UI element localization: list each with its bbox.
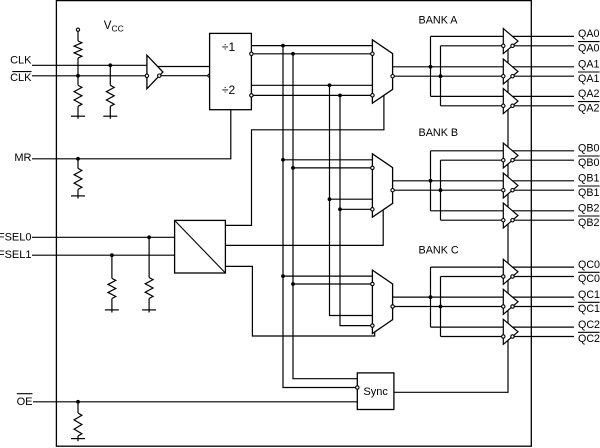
wire bank A bottom buffer true input bbox=[431, 95, 504, 97]
svg-text:CLK: CLK bbox=[10, 72, 32, 84]
op-amp U1 input clock buffer bbox=[147, 55, 163, 89]
wire bank B bottom buffer complement input bbox=[441, 219, 502, 221]
bubble buffer QB2 inverting input bbox=[502, 219, 505, 222]
wire bank B fanout true vertical bbox=[430, 151, 432, 211]
bubble sync inverting input bbox=[356, 386, 359, 389]
wire output QA1 complement bbox=[514, 75, 574, 77]
bubble buffer QA1 inverting input bbox=[502, 75, 505, 78]
junction mux B pair2 complement bbox=[338, 207, 342, 211]
wire mux C complement output bbox=[394, 306, 501, 308]
resistor pull-down FSEL1 bbox=[111, 255, 113, 278]
svg-text:QA2: QA2 bbox=[578, 103, 599, 115]
buffer QC1 bbox=[503, 289, 518, 314]
decoder diagonal bbox=[175, 220, 226, 273]
junction bank B fanout true bbox=[429, 179, 433, 183]
svg-text:BANK C: BANK C bbox=[419, 244, 459, 256]
sync block bbox=[357, 373, 394, 410]
junction mux B pair2 true bbox=[328, 197, 332, 201]
wire output QA2 true bbox=[513, 95, 575, 97]
bubble div1 inverted output bbox=[250, 52, 253, 55]
bubble buffer QB0 inverting input bbox=[502, 159, 505, 162]
wire FSEL0 input bbox=[32, 236, 175, 238]
wire clock buffer complement output bbox=[161, 75, 208, 77]
junction div1 true branch bbox=[281, 44, 285, 48]
resistor pull-down FSEL0 bbox=[148, 237, 150, 277]
svg-text:Sync: Sync bbox=[363, 386, 388, 398]
wire mux B input pair2 true bbox=[330, 198, 373, 200]
wire output QC0 true bbox=[513, 266, 575, 268]
svg-text:OE: OE bbox=[17, 396, 33, 408]
wire bank B fanout complement vertical bbox=[440, 160, 442, 220]
svg-text:QC2: QC2 bbox=[578, 319, 600, 331]
svg-text:QA1: QA1 bbox=[578, 73, 599, 85]
svg-text:CLK: CLK bbox=[10, 55, 32, 67]
chip boundary bbox=[56, 1, 531, 447]
ground FSEL1 resistor bbox=[105, 309, 119, 311]
wire output QB0 complement bbox=[514, 159, 574, 161]
bubble mux B pair1 inverting input bbox=[371, 166, 374, 169]
bubble mux A pair2 inverting input bbox=[371, 94, 374, 97]
wire CLKb input bbox=[32, 75, 145, 77]
wire div2 true bus vertical bbox=[330, 85, 373, 315]
wire output QA0 complement bbox=[514, 45, 574, 47]
mux bank B bbox=[372, 154, 392, 217]
wire select B route bbox=[225, 210, 383, 246]
junction bank A fanout true bbox=[429, 65, 433, 69]
ground FSEL0 resistor bbox=[142, 309, 156, 311]
wire mux C input pair1 complement bbox=[293, 283, 371, 285]
buffer QB0 bbox=[503, 143, 518, 168]
resistor pull-down OE bbox=[77, 402, 79, 413]
bubble divider inverting input bbox=[208, 74, 211, 77]
wire bank C fanout true vertical bbox=[430, 267, 432, 327]
bubble buffer QA2 inverting input bbox=[502, 104, 505, 107]
bubble mux A inverted output bbox=[391, 75, 394, 78]
wire output QC1 true bbox=[513, 296, 575, 298]
wire output QA1 true bbox=[513, 66, 575, 68]
svg-text:QB1: QB1 bbox=[578, 187, 599, 199]
svg-text:÷1: ÷1 bbox=[222, 40, 236, 54]
ground MR resistor bbox=[71, 195, 85, 197]
wire mux A complement output bbox=[394, 75, 501, 77]
bubble buffer QC2 inverting input bbox=[502, 335, 505, 338]
divider block bbox=[210, 33, 252, 109]
junction div2 true branch bbox=[328, 83, 332, 87]
wire OE input bbox=[33, 401, 357, 403]
wire output QB1 true bbox=[513, 180, 575, 182]
junction mux B pair1 complement bbox=[291, 166, 295, 170]
junction CLK pull-down bbox=[108, 63, 112, 67]
decoder FSEL block bbox=[175, 220, 226, 273]
bubble buffer QC0 inverting input bbox=[502, 275, 505, 278]
wire bank C top buffer true input bbox=[431, 266, 504, 268]
bubble buffer QA2 inverted output bbox=[511, 104, 514, 107]
bubble buffer QC0 inverted output bbox=[511, 275, 514, 278]
wire output QB0 true bbox=[513, 150, 575, 152]
wire output QC2 complement bbox=[514, 336, 574, 338]
svg-text:÷2: ÷2 bbox=[222, 83, 236, 97]
mux bank A bbox=[372, 40, 392, 103]
bubble buffer QB1 inverting input bbox=[502, 189, 505, 192]
wire bank B top buffer complement input bbox=[441, 159, 502, 161]
junction div1 complement branch bbox=[291, 52, 295, 56]
svg-text:QA2: QA2 bbox=[578, 88, 599, 100]
wire select C route bbox=[225, 266, 374, 336]
wire mux B complement output bbox=[394, 189, 501, 191]
bubble mux C inverted output bbox=[391, 305, 394, 308]
bubble mux C pair1 inverting input bbox=[371, 282, 374, 285]
bubble div2 inverted output bbox=[250, 94, 253, 97]
svg-text:QB0: QB0 bbox=[578, 143, 599, 155]
junction bank C fanout complement bbox=[439, 305, 443, 309]
svg-text:QC1: QC1 bbox=[578, 289, 600, 301]
bubble buffer QB0 inverted output bbox=[511, 159, 514, 162]
wire output QB2 true bbox=[513, 210, 575, 212]
junction bank C fanout true bbox=[429, 295, 433, 299]
bubble buffer QA0 inverting input bbox=[502, 44, 505, 47]
wire output QC2 true bbox=[513, 326, 575, 328]
buffer QB2 bbox=[503, 203, 518, 228]
wire div2 true output bbox=[251, 84, 372, 86]
junction bank A fanout complement bbox=[439, 74, 443, 78]
wire output QA0 true bbox=[513, 35, 575, 37]
wire sync enable chain bbox=[394, 50, 508, 393]
buffer QC2 bbox=[503, 319, 518, 344]
bubble clock buffer inverting input bbox=[145, 74, 148, 77]
wire output QC0 complement bbox=[514, 276, 574, 278]
bubble mux B pair2 inverting input bbox=[371, 208, 374, 211]
wire div1 complement output bbox=[253, 53, 371, 55]
resistor pull-down MR bbox=[77, 159, 79, 169]
bubble buffer QB1 inverted output bbox=[511, 189, 514, 192]
svg-text:QC1: QC1 bbox=[578, 303, 600, 315]
wire clock buffer true output bbox=[158, 66, 210, 68]
wire output QC1 complement bbox=[514, 306, 574, 308]
ground OE resistor bbox=[71, 438, 85, 440]
bubble mux C pair2 inverting input bbox=[371, 324, 374, 327]
svg-text:QC0: QC0 bbox=[578, 259, 600, 271]
svg-text:CC: CC bbox=[112, 23, 124, 33]
wire mux C input pair1 true bbox=[283, 275, 372, 277]
svg-text:QB2: QB2 bbox=[578, 217, 599, 229]
wire bank A fanout complement vertical bbox=[440, 46, 442, 106]
resistor pull-up CLKb bbox=[77, 31, 79, 41]
svg-text:BANK B: BANK B bbox=[419, 127, 459, 139]
svg-text:QC2: QC2 bbox=[578, 333, 600, 345]
resistor pull-down CLKb bbox=[77, 76, 79, 86]
bubble buffer QB2 inverted output bbox=[511, 219, 514, 222]
wire bank B bottom buffer true input bbox=[431, 210, 504, 212]
ground CLK resistor bbox=[103, 115, 117, 117]
wire output QB2 complement bbox=[514, 219, 574, 221]
junction div2 complement branch bbox=[338, 94, 342, 98]
wire bank A top buffer complement input bbox=[441, 45, 502, 47]
bubble buffer QA0 inverted output bbox=[511, 44, 514, 47]
svg-text:QB0: QB0 bbox=[578, 157, 599, 169]
wire mux A true output bbox=[393, 66, 504, 68]
wire FSEL1 input bbox=[32, 254, 175, 256]
wire bank C bottom buffer complement input bbox=[441, 336, 502, 338]
wire div2 complement bus vertical bbox=[340, 95, 371, 325]
wire output QB1 complement bbox=[514, 189, 574, 191]
mux bank C bbox=[372, 270, 392, 333]
svg-text:QA0: QA0 bbox=[578, 28, 599, 40]
bubble buffer QC1 inverting input bbox=[502, 305, 505, 308]
bubble buffer QC1 inverted output bbox=[511, 305, 514, 308]
svg-text:BANK A: BANK A bbox=[419, 15, 459, 27]
wire bank A fanout true vertical bbox=[430, 36, 432, 96]
svg-text:FSEL0: FSEL0 bbox=[0, 231, 32, 243]
wire bank C bottom buffer true input bbox=[431, 326, 504, 328]
wire output QA2 complement bbox=[514, 105, 574, 107]
svg-text:QC0: QC0 bbox=[578, 273, 600, 285]
junction FSEL1 pull-down bbox=[110, 253, 114, 257]
junction mux C pair1 complement bbox=[291, 282, 295, 286]
bubble mux B inverted output bbox=[391, 189, 394, 192]
bubble buffer QA1 inverted output bbox=[511, 75, 514, 78]
junction mux B pair1 true bbox=[281, 158, 285, 162]
wire bank A bottom buffer complement input bbox=[441, 105, 502, 107]
resistor pull-down CLK bbox=[109, 65, 111, 85]
wire div1 true output bbox=[251, 45, 372, 47]
junction CLKb pull-up bbox=[76, 74, 80, 78]
wire CLK input bbox=[32, 64, 147, 66]
wire bank C fanout complement vertical bbox=[440, 277, 442, 337]
wire div1 complement bus vertical bbox=[293, 54, 357, 379]
wire div1 true bus vertical bbox=[283, 46, 356, 388]
junction mux C pair1 true bbox=[281, 274, 285, 278]
wire select A route bbox=[225, 95, 384, 225]
bubble buffer QC2 inverted output bbox=[511, 335, 514, 338]
wire bank B top buffer true input bbox=[431, 150, 504, 152]
junction FSEL0 pull-down bbox=[147, 235, 151, 239]
buffer QA1 bbox=[503, 59, 518, 84]
svg-text:FSEL1: FSEL1 bbox=[0, 249, 32, 261]
svg-text:QB1: QB1 bbox=[578, 173, 599, 185]
junction OE pull-down bbox=[76, 400, 80, 404]
wire mux B input pair2 complement bbox=[340, 208, 371, 210]
wire mux B input pair1 complement bbox=[293, 167, 371, 169]
bubble mux A pair1 inverting input bbox=[371, 52, 374, 55]
ground CLKb resistor bbox=[71, 115, 85, 117]
Vcc terminal bbox=[76, 28, 79, 31]
wire div2 complement output bbox=[253, 94, 371, 96]
svg-text:QA1: QA1 bbox=[578, 59, 599, 71]
wire MR input bbox=[32, 110, 231, 159]
svg-text:QA0: QA0 bbox=[578, 43, 599, 55]
buffer QB1 bbox=[503, 173, 518, 198]
wire bank A top buffer true input bbox=[431, 35, 504, 37]
buffer QA0 bbox=[503, 29, 518, 54]
wire mux B input pair1 true bbox=[283, 159, 372, 161]
svg-text:QB2: QB2 bbox=[578, 203, 599, 215]
bubble clock buffer inverted output bbox=[158, 74, 161, 77]
wire bank C top buffer complement input bbox=[441, 276, 502, 278]
junction bank B fanout complement bbox=[439, 188, 443, 192]
junction MR pull-down bbox=[76, 157, 80, 161]
svg-text:MR: MR bbox=[14, 152, 31, 164]
wire mux B true output bbox=[393, 180, 504, 182]
buffer QC0 bbox=[503, 259, 518, 284]
buffer QA2 bbox=[503, 89, 518, 114]
wire mux C true output bbox=[393, 296, 504, 298]
